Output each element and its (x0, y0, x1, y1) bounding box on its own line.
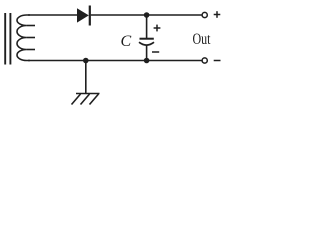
minus sign at capacitor (152, 51, 159, 53)
junction dot ground (83, 58, 89, 64)
output terminal - (open circle) (202, 58, 207, 63)
minus sign at - terminal (214, 60, 221, 62)
transformer secondary winding (17, 15, 35, 61)
junction dot bottom (cap to bottom wire) (144, 58, 150, 64)
junction dot top (cap to top wire) (144, 12, 150, 18)
capacitor C plates (139, 39, 154, 45)
svg-text:Out: Out (193, 31, 212, 48)
diode D1 (77, 6, 90, 26)
capacitor C bottom lead (146, 45, 148, 60)
ground lead (85, 61, 87, 94)
transformer core (5, 13, 10, 65)
wire bottom (secondary to - terminal) (28, 60, 202, 62)
capacitor C top lead (146, 15, 148, 38)
wire top right (diode cathode to + terminal) (91, 14, 202, 16)
plus sign at capacitor (154, 25, 161, 32)
svg-text:C: C (121, 33, 132, 50)
plus sign at + terminal (214, 11, 221, 18)
wire top left (secondary to diode anode) (28, 14, 78, 16)
output terminal + (open circle) (202, 12, 207, 17)
ground (chassis) symbol (72, 94, 100, 105)
